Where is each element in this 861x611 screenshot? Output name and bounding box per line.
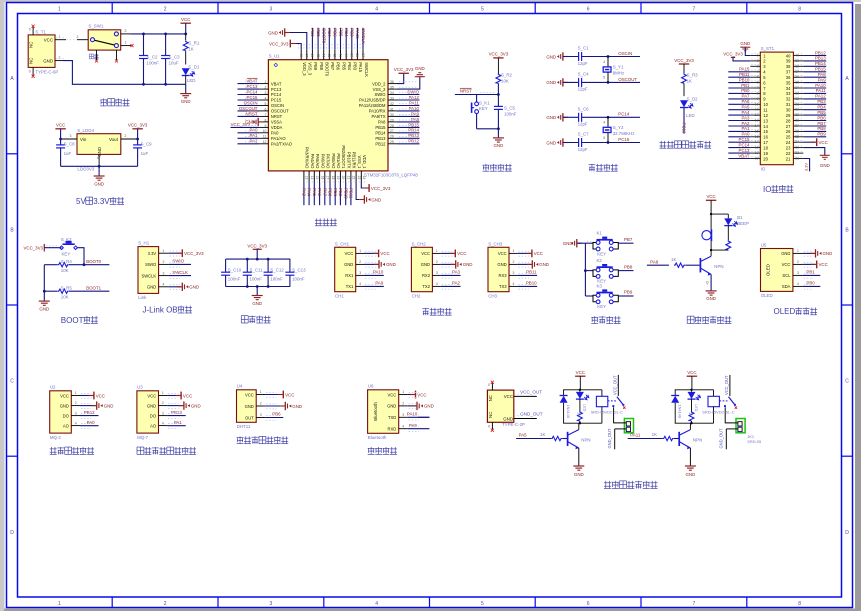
wire NRST node	[455, 88, 500, 96]
svg-text:SWCLK: SWCLK	[141, 273, 156, 278]
svg-text:PA3: PA3	[302, 188, 307, 197]
svg-text:3: 3	[125, 29, 127, 33]
svg-text:1K: 1K	[540, 432, 545, 437]
svg-text:PC15: PC15	[618, 137, 630, 142]
svg-text:10K: 10K	[501, 79, 509, 84]
svg-text:CH2: CH2	[412, 293, 421, 298]
S_CH1 pin1 VCC	[364, 250, 390, 258]
svg-text:VCC: VCC	[181, 17, 190, 22]
svg-text:3: 3	[162, 411, 164, 415]
svg-text:0: 0	[488, 383, 490, 387]
U1 VDD_2 to VCC_3V3	[394, 67, 414, 84]
svg-text:VCC: VCC	[60, 393, 69, 398]
svg-text:PB0: PB0	[741, 88, 750, 93]
svg-text:TXD: TXD	[388, 415, 396, 420]
svg-text:PB7: PB7	[330, 62, 335, 71]
svg-text:RX3: RX3	[499, 273, 508, 278]
svg-text:2: 2	[260, 402, 262, 406]
svg-text:SWCLK: SWCLK	[364, 62, 369, 77]
svg-text:VCC_3V3: VCC_3V3	[723, 52, 743, 57]
svg-text:PA12: PA12	[815, 94, 826, 99]
svg-text:PA11: PA11	[409, 100, 420, 105]
svg-text:S_C2: S_C2	[147, 54, 159, 59]
svg-text:VCC: VCC	[576, 370, 585, 375]
svg-text:2: 2	[797, 260, 799, 264]
U2 pin2 GND	[80, 401, 113, 409]
svg-text:42: 42	[333, 53, 337, 57]
pushbutton K2 KEY	[60, 237, 78, 257]
T2 top no-connect pin	[488, 381, 494, 391]
svg-text:GND: GND	[147, 285, 156, 290]
svg-text:12pF: 12pF	[578, 122, 588, 127]
title program run indicator	[660, 141, 667, 148]
svg-text:PA9: PA9	[409, 423, 418, 428]
svg-text:GND: GND	[43, 58, 53, 63]
svg-text:GND: GND	[415, 66, 425, 71]
S_CH3 pin4 wire PB10	[517, 281, 537, 287]
power VCC_3V3 filter	[247, 243, 267, 259]
svg-text:4: 4	[402, 424, 404, 428]
svg-text:GND: GND	[463, 262, 473, 267]
svg-text:VSS_2: VSS_2	[373, 87, 387, 92]
svg-text:VCC: VCC	[285, 392, 294, 397]
svg-text:32: 32	[786, 97, 791, 102]
svg-text:1: 1	[59, 35, 61, 39]
svg-text:VDD_1: VDD_1	[362, 155, 367, 169]
relay collector wire	[689, 423, 691, 429]
S_CH2 pin4 wire PA2	[441, 281, 461, 287]
resistor R5 10K	[44, 285, 109, 299]
svg-text:CH1: CH1	[335, 293, 344, 298]
svg-text:VCC: VCC	[819, 140, 828, 145]
svg-text:PB7: PB7	[327, 28, 332, 37]
power VCC top	[181, 17, 191, 34]
svg-text:PA9: PA9	[375, 281, 384, 286]
svg-text:32.768KHz: 32.768KHz	[613, 131, 635, 136]
svg-text:40: 40	[786, 53, 791, 58]
svg-text:10: 10	[763, 102, 768, 107]
title smoke detect module	[50, 447, 57, 454]
svg-text:VCC_3V3: VCC_3V3	[23, 246, 43, 251]
svg-text:S_C4: S_C4	[578, 72, 590, 77]
svg-text:5: 5	[603, 76, 605, 80]
svg-text:2: 2	[164, 7, 167, 13]
capacitor S_C1 12pF	[546, 46, 609, 66]
relay LED with resistor	[688, 390, 701, 423]
T1 bottom no-connect pin	[29, 67, 35, 77]
pushbutton K1 reset	[472, 95, 491, 129]
crystal S_Y1 8MHz	[603, 57, 624, 83]
filter top rail	[226, 258, 291, 261]
svg-text:2: 2	[162, 401, 164, 405]
svg-text:16: 16	[763, 135, 768, 140]
buzzer labels B1 BEEP	[737, 215, 749, 226]
svg-text:TX3: TX3	[499, 284, 507, 289]
svg-text:GND: GND	[740, 41, 750, 46]
net wire PC15	[608, 137, 640, 143]
svg-text:OSCIN: OSCIN	[271, 103, 284, 108]
svg-text:MQ-2: MQ-2	[50, 435, 62, 440]
svg-text:VCC_3V3: VCC_3V3	[184, 251, 204, 256]
MCU U1 STM32F103C8T6 body	[268, 54, 418, 178]
U1 bottom pin names and numbers	[304, 145, 367, 182]
svg-text:0: 0	[29, 70, 31, 74]
svg-text:LED: LED	[582, 404, 587, 412]
svg-text:VCC: VCC	[706, 194, 715, 199]
relay coil	[708, 390, 719, 423]
svg-text:S_R4: S_R4	[61, 259, 73, 264]
svg-text:BOOT0: BOOT0	[86, 259, 101, 264]
pushbutton K2 KEY	[585, 258, 618, 284]
U1 VSS_2 to GND	[397, 66, 425, 89]
svg-text:PB1/AO: PB1/AO	[336, 153, 341, 169]
svg-text:GND: GND	[546, 80, 556, 85]
U5 pin2 VCC	[803, 261, 828, 269]
svg-text:S_U1: S_U1	[269, 54, 281, 59]
svg-text:1: 1	[58, 601, 61, 607]
svg-text:VBAT: VBAT	[246, 79, 257, 84]
U1 top wires with net labels	[310, 28, 366, 50]
P1 internal pin numbers	[750, 53, 803, 161]
svg-text:VCC: VCC	[534, 251, 543, 256]
resistor R4 10K	[44, 259, 109, 273]
svg-text:PB13: PB13	[408, 133, 419, 138]
svg-text:PB10: PB10	[739, 77, 750, 82]
bottom rail to GND	[142, 83, 186, 94]
title crystal circuit	[589, 164, 596, 171]
svg-text:VCC: VCC	[380, 251, 389, 256]
svg-text:S_D1: S_D1	[188, 64, 200, 69]
svg-text:39: 39	[786, 59, 791, 64]
svg-text:PB4: PB4	[344, 28, 349, 37]
svg-text:KEY: KEY	[479, 106, 488, 111]
svg-text:PB9: PB9	[313, 62, 318, 71]
svg-text:TX2: TX2	[422, 284, 430, 289]
svg-text:OSCIN: OSCIN	[618, 51, 632, 56]
U1 VDD_3 to VCC_3V3 top	[269, 40, 301, 50]
resistor R1 1K	[183, 34, 200, 65]
S_CH2 pin3 wire PA3	[441, 270, 461, 276]
svg-text:2: 2	[402, 402, 404, 406]
svg-text:24: 24	[786, 140, 791, 145]
svg-text:PA0: PA0	[271, 131, 279, 136]
U1 VDDA pin VCC_3V3 wire	[231, 122, 260, 128]
svg-text:3.3V: 3.3V	[148, 251, 157, 256]
svg-text:S_C3: S_C3	[169, 54, 181, 59]
module U2 body	[50, 385, 80, 440]
svg-text:14: 14	[763, 124, 768, 129]
svg-text:U3: U3	[137, 385, 143, 390]
svg-text:12: 12	[763, 113, 768, 118]
svg-text:S_CH2: S_CH2	[412, 241, 427, 246]
reset bottom wire to GND	[477, 127, 500, 137]
svg-text:S_LDO4: S_LDO4	[77, 128, 94, 133]
svg-text:PC13: PC13	[247, 84, 259, 89]
switch SW1 body	[88, 24, 121, 50]
svg-text:1: 1	[402, 390, 404, 394]
svg-text:1: 1	[125, 41, 127, 45]
P1 GND right pin18	[803, 148, 829, 168]
svg-text:39: 39	[350, 53, 354, 57]
svg-text:40: 40	[344, 53, 348, 57]
svg-text:GND: GND	[546, 140, 556, 145]
svg-text:4: 4	[603, 60, 605, 64]
svg-text:GND: GND	[424, 404, 434, 409]
svg-text:PA4/AO: PA4/AO	[310, 154, 315, 169]
U4 pin3 wire PB6	[265, 412, 283, 418]
power GND symbol	[180, 94, 191, 104]
svg-text:4: 4	[359, 282, 361, 286]
svg-text:1uF: 1uF	[64, 151, 72, 156]
title filter circuit	[241, 316, 248, 323]
svg-text:4: 4	[162, 421, 164, 425]
svg-text:GND: GND	[421, 262, 430, 267]
svg-text:PB7: PB7	[817, 121, 826, 126]
svg-text:41: 41	[338, 53, 342, 57]
U2 pin1 VCC	[80, 392, 105, 400]
svg-text:S_SW1: S_SW1	[88, 24, 103, 29]
svg-text:PB13: PB13	[171, 410, 182, 415]
svg-text:K1: K1	[597, 231, 603, 236]
svg-text:1: 1	[163, 249, 165, 253]
svg-text:PA4: PA4	[742, 110, 751, 115]
svg-text:GND: GND	[820, 163, 830, 168]
svg-text:23: 23	[786, 145, 791, 150]
LDO GND symbol	[94, 166, 105, 186]
svg-text:PA8: PA8	[411, 117, 420, 122]
svg-text:PA2: PA2	[742, 121, 751, 126]
svg-text:PA9: PA9	[818, 77, 827, 82]
svg-text:VCC_3V3: VCC_3V3	[231, 122, 251, 127]
svg-text:RX2: RX2	[422, 273, 431, 278]
svg-text:U2: U2	[50, 385, 56, 390]
svg-text:DO: DO	[63, 413, 70, 418]
svg-text:VCC: VCC	[819, 262, 828, 267]
U5 pin4 wire PB0	[803, 281, 820, 287]
svg-text:PC13: PC13	[739, 148, 751, 153]
capacitor C3 10uF	[161, 34, 180, 84]
svg-text:47: 47	[305, 53, 309, 57]
power VCC_3V3 reset	[489, 52, 509, 74]
svg-text:PB1: PB1	[806, 270, 815, 275]
LED D1	[182, 64, 200, 84]
title relay control circuit	[604, 481, 611, 489]
module U4 DHT11 body	[237, 384, 266, 429]
svg-text:PC14: PC14	[271, 92, 282, 97]
U6 pin2 GND	[408, 402, 434, 410]
svg-text:STM32F103C8T6_LQFP48: STM32F103C8T6_LQFP48	[364, 173, 418, 178]
svg-text:PB2/BOOT1: PB2/BOOT1	[341, 145, 346, 169]
svg-text:OSCIN: OSCIN	[244, 100, 258, 105]
relay network rails	[563, 389, 602, 425]
svg-text:1K: 1K	[576, 412, 581, 417]
svg-text:PA10: PA10	[815, 83, 826, 88]
svg-text:PC14: PC14	[247, 89, 259, 94]
transistor NPN alarm	[700, 250, 723, 276]
U1 left pin names and numbers	[259, 80, 292, 147]
T2 VCC_OUT wire	[514, 390, 542, 397]
svg-text:PA5: PA5	[519, 433, 528, 438]
svg-text:12pF: 12pF	[578, 61, 588, 66]
svg-text:LED: LED	[694, 404, 699, 412]
svg-text:4: 4	[603, 121, 605, 125]
svg-text:PB9: PB9	[624, 290, 633, 295]
title CO detect module	[137, 447, 144, 454]
svg-text:PB14: PB14	[408, 128, 419, 133]
svg-text:TYPE-C-6P: TYPE-C-6P	[35, 70, 58, 75]
svg-text:PA0: PA0	[250, 128, 259, 133]
svg-text:S_C5: S_C5	[504, 106, 516, 111]
T1 top no-connect pin	[29, 25, 35, 35]
svg-text:PB6: PB6	[336, 62, 341, 71]
svg-text:S_CH3: S_CH3	[488, 241, 503, 246]
svg-text:PA3: PA3	[742, 115, 751, 120]
svg-text:GND: GND	[497, 262, 506, 267]
svg-text:GND: GND	[147, 403, 156, 408]
P1 VCC right pin17	[803, 138, 827, 146]
pushbutton K1 KEY	[585, 231, 618, 257]
svg-text:SWIO: SWIO	[407, 89, 419, 94]
capacitor C9 1uF	[133, 139, 152, 166]
svg-text:3: 3	[436, 271, 438, 275]
svg-text:3: 3	[513, 271, 515, 275]
svg-text:PC13: PC13	[682, 123, 687, 135]
svg-text:GND: GND	[781, 251, 790, 256]
svg-text:AO: AO	[150, 423, 157, 428]
U3 pin2 GND	[167, 401, 200, 409]
svg-text:SWIO: SWIO	[145, 262, 157, 267]
U2 pin3 wire PB12	[80, 410, 99, 416]
svg-text:VCC: VCC	[687, 370, 696, 375]
svg-text:4: 4	[375, 601, 378, 607]
svg-text:CH3: CH3	[488, 293, 497, 298]
svg-text:S_C12: S_C12	[270, 268, 284, 273]
svg-text:C: C	[10, 379, 14, 385]
svg-text:VCC: VCC	[147, 393, 156, 398]
svg-text:34: 34	[786, 86, 791, 91]
svg-text:100nF: 100nF	[250, 277, 263, 282]
svg-text:PB14: PB14	[815, 61, 826, 66]
svg-text:6: 6	[587, 601, 590, 607]
U1 VSSA pin GND	[245, 118, 263, 126]
svg-text:3: 3	[270, 7, 273, 13]
U4 pin1 VCC	[265, 391, 294, 399]
svg-text:1: 1	[75, 391, 77, 395]
H1 pin1 VCC_3V3	[169, 249, 205, 257]
net wire PC14	[608, 112, 640, 118]
relay JK1 labels	[747, 434, 761, 444]
power VCC relay	[575, 370, 585, 390]
wire SW1 pin3 to VCC rail	[121, 29, 187, 35]
svg-text:VCC_3V3: VCC_3V3	[394, 67, 414, 72]
svg-text:1: 1	[797, 249, 799, 253]
svg-text:VDD_2: VDD_2	[372, 81, 386, 86]
svg-text:VBAT: VBAT	[271, 81, 282, 86]
svg-text:10K: 10K	[61, 268, 69, 273]
svg-text:S_R2: S_R2	[501, 73, 513, 78]
svg-text:37: 37	[786, 70, 791, 75]
relay driver base resistor 1K	[551, 436, 567, 440]
svg-text:PB6: PB6	[817, 115, 826, 120]
svg-text:12pF: 12pF	[578, 147, 588, 152]
svg-text:3.3V: 3.3V	[93, 197, 110, 206]
svg-text:PB10/TX: PB10/TX	[347, 152, 352, 169]
svg-text:PB12: PB12	[408, 139, 419, 144]
svg-text:VCC: VCC	[782, 262, 791, 267]
capacitor C8 1uF	[56, 139, 75, 166]
svg-text:D: D	[10, 530, 14, 536]
svg-text:PB1: PB1	[333, 188, 338, 197]
svg-text:S_C9: S_C9	[141, 141, 153, 146]
capacitor S_C10 100nF	[221, 259, 242, 286]
svg-text:GND: GND	[574, 472, 584, 477]
svg-text:S_R5: S_R5	[61, 285, 73, 290]
H1 pin3 SWCLK wire	[169, 270, 191, 276]
svg-text:31: 31	[786, 102, 791, 107]
svg-text:S_CH1: S_CH1	[335, 241, 350, 246]
svg-text:SWIO: SWIO	[374, 92, 386, 97]
svg-text:PB6: PB6	[333, 28, 338, 37]
svg-text:4: 4	[513, 282, 515, 286]
svg-text:PB10: PB10	[343, 188, 348, 199]
U1 left net wires	[238, 78, 260, 144]
svg-text:VCC_3V3: VCC_3V3	[371, 186, 391, 191]
svg-text:PA7/AO: PA7/AO	[326, 154, 331, 169]
svg-text:PA10: PA10	[407, 412, 418, 417]
svg-text:11: 11	[763, 108, 768, 113]
svg-text:KEY: KEY	[597, 304, 606, 309]
net wire OSCOUT	[608, 77, 640, 83]
svg-text:46: 46	[310, 53, 314, 57]
svg-text:PB12: PB12	[84, 410, 95, 415]
svg-text:PC15: PC15	[247, 95, 259, 100]
svg-text:PA5: PA5	[742, 105, 751, 110]
connector T1 TYPE-C-6P body	[28, 29, 58, 74]
flyback diode 1N4148	[560, 390, 571, 423]
svg-text:4: 4	[797, 282, 799, 286]
svg-text:GND: GND	[60, 403, 69, 408]
svg-text:PA2: PA2	[452, 281, 461, 286]
svg-text:PA3: PA3	[452, 270, 461, 275]
svg-text:GND: GND	[268, 30, 278, 35]
svg-text:28: 28	[786, 118, 791, 123]
svg-text:VCC: VCC	[56, 123, 65, 128]
svg-text:3: 3	[260, 413, 262, 417]
svg-text:PA5/AO: PA5/AO	[315, 154, 320, 169]
svg-text:1: 1	[260, 390, 262, 394]
svg-text:PB13: PB13	[375, 136, 386, 141]
svg-text:VCC: VCC	[96, 393, 105, 398]
svg-text:VSS_1: VSS_1	[357, 155, 362, 169]
svg-text:OLED: OLED	[761, 293, 773, 298]
svg-text:GND_OUT: GND_OUT	[520, 412, 543, 417]
svg-text:37: 37	[361, 53, 365, 57]
svg-text:GND: GND	[344, 262, 353, 267]
svg-text:2: 2	[436, 260, 438, 264]
svg-text:PA15: PA15	[358, 62, 363, 73]
title main chip	[315, 218, 322, 225]
svg-text:Link: Link	[138, 295, 147, 300]
svg-text:PA1/AO: PA1/AO	[271, 136, 286, 141]
svg-text:4: 4	[97, 156, 99, 160]
svg-text:PA2: PA2	[250, 139, 259, 144]
svg-text:30: 30	[786, 108, 791, 113]
connector H1 JLink body	[138, 241, 169, 300]
relay driver input wire PA5	[516, 432, 551, 438]
svg-text:2: 2	[513, 260, 515, 264]
svg-text:SCL: SCL	[782, 273, 791, 278]
svg-text:1K: 1K	[652, 432, 657, 437]
